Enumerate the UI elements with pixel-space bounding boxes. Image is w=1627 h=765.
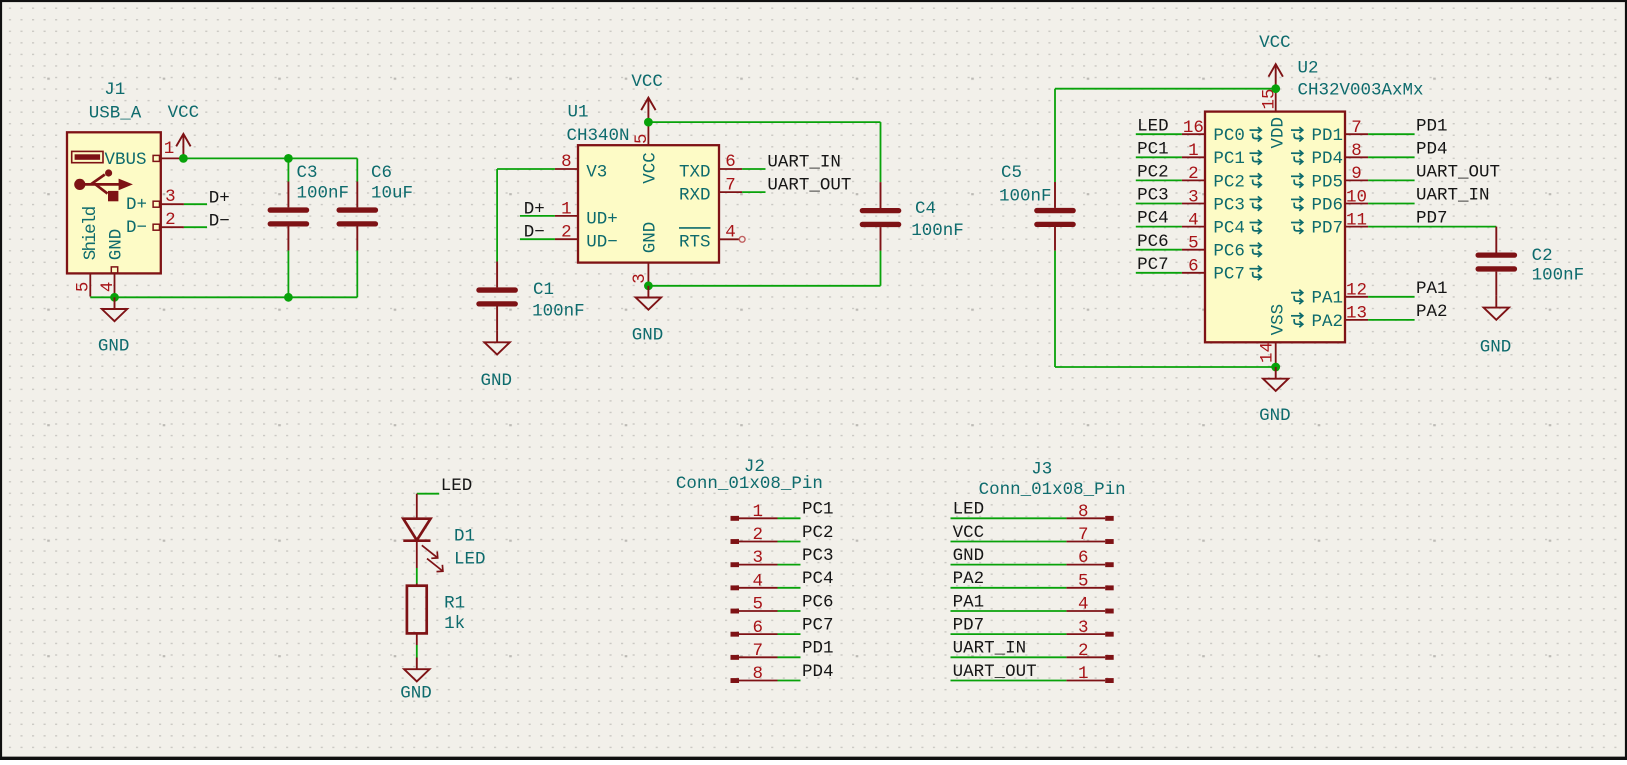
svg-text:GND: GND <box>641 222 661 254</box>
svg-text:4: 4 <box>725 223 736 243</box>
svg-text:4: 4 <box>1078 595 1089 615</box>
svg-text:PC1: PC1 <box>1137 139 1169 159</box>
svg-text:2: 2 <box>1188 164 1199 184</box>
svg-text:GND: GND <box>632 326 664 346</box>
svg-text:PD6: PD6 <box>1312 195 1344 215</box>
svg-text:5: 5 <box>632 133 652 144</box>
svg-text:PD4: PD4 <box>1416 139 1448 159</box>
svg-text:3: 3 <box>1078 618 1089 638</box>
junction C3 top <box>284 154 293 163</box>
svg-text:GND: GND <box>400 683 432 703</box>
U2 pin 8 PD4 (right) <box>1345 156 1368 158</box>
wire LED net stub <box>417 493 439 495</box>
D1 emission arrows <box>422 545 443 571</box>
svg-text:UART_OUT: UART_OUT <box>1416 163 1500 183</box>
svg-text:PC7: PC7 <box>802 615 834 635</box>
svg-text:7: 7 <box>753 641 764 661</box>
svg-text:PA2: PA2 <box>953 569 985 589</box>
svg-text:R1: R1 <box>444 593 465 613</box>
svg-text:TXD: TXD <box>679 163 711 183</box>
svg-text:16: 16 <box>1183 118 1204 138</box>
svg-text:4: 4 <box>1188 210 1199 230</box>
junction U2 VDD <box>1271 84 1280 93</box>
svg-text:PA2: PA2 <box>1312 312 1344 332</box>
svg-text:GND: GND <box>98 336 130 356</box>
svg-text:PC4: PC4 <box>802 569 834 589</box>
svg-text:Shield: Shield <box>81 207 101 260</box>
svg-text:PC7: PC7 <box>1137 255 1169 275</box>
svg-text:2: 2 <box>753 525 764 545</box>
svg-text:D+: D+ <box>524 199 545 219</box>
svg-text:PA1: PA1 <box>1312 289 1344 309</box>
svg-text:RXD: RXD <box>679 186 711 206</box>
svg-text:VCC: VCC <box>641 152 661 184</box>
svg-text:5: 5 <box>753 595 764 615</box>
ground symbol at C1 <box>484 331 509 355</box>
svg-text:PC6: PC6 <box>1137 232 1169 252</box>
svg-text:Conn_01x08_Pin: Conn_01x08_Pin <box>676 474 823 494</box>
svg-text:100nF: 100nF <box>297 184 350 204</box>
svg-text:PC6: PC6 <box>1213 242 1245 262</box>
svg-text:8: 8 <box>1351 141 1362 161</box>
U2 pin 14 VSS bottom <box>1275 342 1277 367</box>
U1 pin 7 RXD <box>719 191 742 193</box>
svg-text:PD7: PD7 <box>1416 209 1448 229</box>
svg-text:D−: D− <box>209 212 230 232</box>
svg-text:C6: C6 <box>371 163 392 183</box>
J3 pin 3 PD7 <box>1105 632 1114 637</box>
J2 pin 4 PC4 <box>731 585 740 590</box>
svg-text:GND: GND <box>107 229 127 261</box>
svg-text:PC7: PC7 <box>1213 265 1245 285</box>
svg-text:U1: U1 <box>568 103 589 123</box>
svg-text:100nF: 100nF <box>911 221 964 241</box>
svg-text:PD1: PD1 <box>1416 116 1448 136</box>
J1 pin 3 D+ <box>153 201 159 207</box>
capacitor C1 <box>496 262 498 288</box>
wire R1 to GND <box>416 645 418 658</box>
svg-text:2: 2 <box>165 210 176 230</box>
svg-text:PD1: PD1 <box>802 639 834 659</box>
svg-text:13: 13 <box>1346 304 1367 324</box>
svg-text:RTS: RTS <box>679 233 711 253</box>
power symbol VCC at U1 <box>641 98 655 123</box>
svg-text:5: 5 <box>1078 571 1089 591</box>
svg-text:D−: D− <box>524 223 545 243</box>
svg-text:VCC: VCC <box>631 72 663 92</box>
junction VBUS-VCC <box>179 154 188 163</box>
J2 pin 2 PC2 <box>731 539 740 544</box>
svg-text:10uF: 10uF <box>371 184 413 204</box>
svg-text:8: 8 <box>1078 502 1089 522</box>
svg-text:8: 8 <box>561 152 572 172</box>
J1 USB receptacle icon <box>72 151 103 162</box>
svg-text:D1: D1 <box>454 527 475 547</box>
svg-text:PD7: PD7 <box>953 615 985 635</box>
U2 pin 7 PD1 (right) <box>1345 133 1368 135</box>
junction C3 bottom <box>284 293 293 302</box>
svg-text:PC0: PC0 <box>1213 126 1245 146</box>
svg-text:10: 10 <box>1346 187 1367 207</box>
svg-text:5: 5 <box>74 282 94 293</box>
U1 pin 2 UD- <box>555 238 578 240</box>
U2 pin 11 PD7 (right) <box>1345 226 1368 228</box>
svg-text:UD+: UD+ <box>586 210 618 230</box>
U2 pin 1 PC1 (left) <box>1182 156 1205 158</box>
svg-text:C1: C1 <box>533 280 554 300</box>
J1 pin 5 Shield <box>89 273 91 296</box>
svg-text:CH340N: CH340N <box>567 126 630 146</box>
svg-text:VDD: VDD <box>1269 117 1289 149</box>
wire D- stub <box>184 226 207 228</box>
svg-text:3: 3 <box>753 548 764 568</box>
wire U1 VCC to C4 <box>648 121 880 123</box>
capacitor C6 <box>356 158 358 181</box>
svg-text:PC4: PC4 <box>1137 209 1169 229</box>
U2 pin 9 PD5 (right) <box>1345 179 1368 181</box>
svg-text:8: 8 <box>753 664 764 684</box>
junction U2 VSS <box>1271 363 1280 372</box>
svg-text:PA2: PA2 <box>1416 302 1448 322</box>
svg-text:D+: D+ <box>209 189 230 209</box>
svg-text:5: 5 <box>1188 234 1199 254</box>
capacitor C3 <box>287 158 289 181</box>
wire V3 to C1 <box>497 168 555 170</box>
svg-text:LED: LED <box>454 550 486 570</box>
U2 pin 12 PA1 (right) <box>1345 296 1368 298</box>
ground symbol at R1 <box>404 658 429 682</box>
J1 pin 4 GND <box>111 267 117 273</box>
svg-text:4: 4 <box>753 571 764 591</box>
wire J1 ground bus <box>90 296 357 298</box>
junction U1 GND <box>644 281 653 290</box>
svg-text:2: 2 <box>1078 641 1089 661</box>
svg-text:PC3: PC3 <box>1213 195 1245 215</box>
svg-text:U2: U2 <box>1298 59 1319 79</box>
svg-text:PC6: PC6 <box>802 592 834 612</box>
J3 pin 2 UART_IN <box>1105 655 1114 660</box>
J1 pin 1 VBUS <box>153 155 159 161</box>
capacitor C2 <box>1495 227 1497 253</box>
J2 pin 8 PD4 <box>731 678 740 683</box>
svg-text:100nF: 100nF <box>999 186 1052 206</box>
svg-text:PD4: PD4 <box>802 662 834 682</box>
connector J1 body <box>67 132 161 273</box>
svg-text:VCC: VCC <box>168 103 200 123</box>
U1 pin 6 TXD <box>719 168 742 170</box>
J2 pin 5 PC6 <box>731 609 740 614</box>
U1 pin 1 UD+ <box>555 215 578 217</box>
svg-text:PC1: PC1 <box>1213 149 1245 169</box>
svg-text:UART_IN: UART_IN <box>953 639 1027 659</box>
capacitor C4 <box>880 182 882 208</box>
svg-text:PD5: PD5 <box>1312 172 1344 192</box>
U2 pin 16 PC0 (left) <box>1182 133 1205 135</box>
U1 pin 5 VCC top <box>647 122 649 145</box>
J2 pin 1 PC1 <box>731 516 740 521</box>
svg-text:GND: GND <box>481 371 513 391</box>
svg-text:USB_A: USB_A <box>89 103 142 123</box>
svg-text:14: 14 <box>1257 342 1277 363</box>
svg-text:PA1: PA1 <box>953 592 985 612</box>
svg-text:C4: C4 <box>915 199 936 219</box>
svg-text:VCC: VCC <box>953 523 985 543</box>
svg-text:V3: V3 <box>586 163 607 183</box>
svg-text:PC2: PC2 <box>1137 163 1169 183</box>
svg-text:100nF: 100nF <box>1532 266 1585 286</box>
svg-text:UD−: UD− <box>586 233 618 253</box>
svg-text:CH32V003AxMx: CH32V003AxMx <box>1298 80 1424 100</box>
wire U2 VDD to C5 <box>1055 88 1276 90</box>
svg-text:1: 1 <box>1188 141 1199 161</box>
svg-text:1: 1 <box>1078 664 1089 684</box>
svg-text:PA1: PA1 <box>1416 279 1448 299</box>
svg-text:7: 7 <box>1351 118 1362 138</box>
ground symbol at U1 <box>636 286 661 310</box>
ground symbol at U2 <box>1263 367 1288 391</box>
svg-text:C2: C2 <box>1532 246 1553 266</box>
svg-text:6: 6 <box>1188 257 1199 277</box>
svg-text:12: 12 <box>1346 281 1367 301</box>
ground symbol at C2 <box>1484 296 1509 320</box>
svg-text:D+: D+ <box>126 195 147 215</box>
svg-text:GND: GND <box>1259 406 1291 426</box>
resistor R1 <box>416 584 418 586</box>
wire D+ stub <box>184 203 207 205</box>
svg-text:LED: LED <box>441 476 473 496</box>
capacitor C5 <box>1054 182 1056 208</box>
svg-text:PC1: PC1 <box>802 500 834 520</box>
J3 pin 1 UART_OUT <box>1105 678 1114 683</box>
ground symbol at J1 <box>102 297 127 321</box>
U2 pin 2 PC2 (left) <box>1182 179 1205 181</box>
svg-text:6: 6 <box>753 618 764 638</box>
J3 pin 4 PA1 <box>1105 609 1114 614</box>
svg-text:C3: C3 <box>297 163 318 183</box>
wire C5 to U2 VSS <box>1055 366 1276 368</box>
U1 pin 4 RTS unconnected <box>719 238 739 240</box>
svg-text:PC3: PC3 <box>802 546 834 566</box>
IC U1 body <box>578 145 719 262</box>
svg-text:VBUS: VBUS <box>105 150 147 170</box>
J1 pin 2 D- <box>153 224 159 230</box>
U1 pin 8 V3 <box>555 168 578 170</box>
junction U1 VCC <box>644 118 653 127</box>
wire U1 GND to C4 bottom <box>648 285 880 287</box>
svg-text:J1: J1 <box>104 80 125 100</box>
svg-text:1k: 1k <box>444 614 465 634</box>
svg-text:UART_OUT: UART_OUT <box>767 176 851 196</box>
J2 pin 6 PC7 <box>731 632 740 637</box>
svg-text:PC3: PC3 <box>1137 186 1169 206</box>
svg-text:7: 7 <box>725 175 736 195</box>
svg-text:PC2: PC2 <box>1213 172 1245 192</box>
wire D1 to R1 <box>416 568 418 584</box>
svg-text:J3: J3 <box>1031 460 1052 480</box>
svg-text:Conn_01x08_Pin: Conn_01x08_Pin <box>979 480 1126 500</box>
J3 pin 5 PA2 <box>1105 585 1114 590</box>
J2 pin 7 PD1 <box>731 655 740 660</box>
svg-text:7: 7 <box>1078 525 1089 545</box>
svg-text:3: 3 <box>165 187 176 207</box>
U2 pin 6 PC7 (left) <box>1182 272 1205 274</box>
IC U2 body <box>1205 112 1345 343</box>
svg-text:UART_IN: UART_IN <box>1416 186 1490 206</box>
U2 pin 15 VDD top <box>1275 89 1277 112</box>
svg-text:1: 1 <box>164 139 175 159</box>
svg-text:GND: GND <box>1480 337 1512 357</box>
U2 pin 10 PD6 (right) <box>1345 203 1368 205</box>
J3 pin 8 LED <box>1105 516 1114 521</box>
svg-text:4: 4 <box>98 282 118 293</box>
svg-text:VCC: VCC <box>1259 33 1291 53</box>
U2 pin 5 PC6 (left) <box>1182 249 1205 251</box>
diode D1 LED <box>416 494 418 519</box>
svg-text:100nF: 100nF <box>532 301 585 321</box>
svg-text:UART_IN: UART_IN <box>767 153 841 173</box>
svg-text:VSS: VSS <box>1269 304 1289 336</box>
J2 pin 3 PC3 <box>731 562 740 567</box>
U2 pin 13 PA2 (right) <box>1345 319 1368 321</box>
svg-text:PD4: PD4 <box>1312 149 1344 169</box>
svg-text:PC4: PC4 <box>1213 219 1245 239</box>
svg-text:LED: LED <box>953 500 985 520</box>
svg-text:PD1: PD1 <box>1312 126 1344 146</box>
J3 pin 7 VCC <box>1105 539 1114 544</box>
svg-text:1: 1 <box>561 199 572 219</box>
J1 USB trident logo <box>74 169 133 201</box>
svg-text:2: 2 <box>561 223 572 243</box>
svg-text:11: 11 <box>1346 210 1367 230</box>
J3 pin 6 GND <box>1105 562 1114 567</box>
U1 pin 3 GND bottom <box>647 263 649 286</box>
svg-text:GND: GND <box>953 546 985 566</box>
svg-text:6: 6 <box>1078 548 1089 568</box>
svg-text:D−: D− <box>126 218 147 238</box>
power symbol VCC at U2 <box>1269 64 1283 89</box>
svg-text:1: 1 <box>753 502 764 522</box>
svg-text:6: 6 <box>725 152 736 172</box>
U2 pin 3 PC3 (left) <box>1182 203 1205 205</box>
wire VBUS to C3 C6 <box>183 157 357 159</box>
svg-text:PD7: PD7 <box>1312 219 1344 239</box>
U2 pin 4 PC4 (left) <box>1182 226 1205 228</box>
svg-text:C5: C5 <box>1001 163 1022 183</box>
svg-text:3: 3 <box>1188 187 1199 207</box>
svg-text:LED: LED <box>1137 116 1169 136</box>
svg-text:UART_OUT: UART_OUT <box>953 662 1037 682</box>
svg-text:9: 9 <box>1351 164 1362 184</box>
svg-text:PC2: PC2 <box>802 523 834 543</box>
junction J1 GND <box>110 293 119 302</box>
power symbol VCC at J1 <box>176 134 190 159</box>
